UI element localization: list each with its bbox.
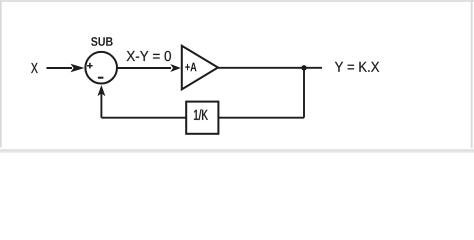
- node X (input signal label): [31, 63, 38, 73]
- wire feedback vertical from output node: [303, 68, 305, 118]
- arrowhead into summing junction: [71, 64, 85, 72]
- wire input X to summing junction: [47, 67, 73, 69]
- minus sign (inverting input of SUB): [98, 77, 104, 79]
- summing junction SUB: [85, 52, 117, 84]
- wire feedback horizontal to 1/K block: [218, 117, 304, 119]
- node label Y = K.X: [335, 62, 379, 72]
- block 1/K (feedback network): [186, 102, 218, 134]
- wire feedback horizontal from 1/K block: [101, 117, 186, 119]
- node label X-Y = 0: [127, 51, 171, 61]
- arrowhead into amplifier: [170, 64, 181, 72]
- wire feedback vertical up to summing junction: [100, 93, 102, 118]
- arrowhead into summing junction bottom: [97, 85, 105, 96]
- label 1/K: [194, 109, 208, 120]
- plus sign (noninverting input of SUB): [87, 63, 93, 69]
- label SUB: [91, 37, 113, 46]
- wire amplifier output: [218, 67, 322, 69]
- op-amp A (gain +A triangle): [182, 46, 218, 90]
- node output junction dot: [301, 65, 306, 70]
- frame (decorative): [0, 0, 474, 2]
- wire summing junction to amplifier: [117, 67, 171, 69]
- label +A: [185, 63, 196, 72]
